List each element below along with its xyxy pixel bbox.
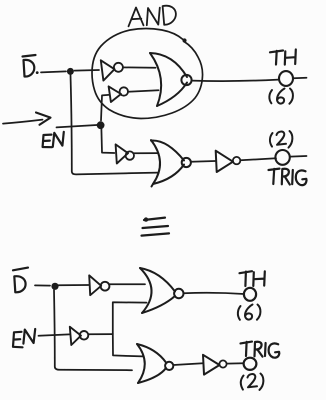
branch wire up to NOR G3 lower input	[113, 302, 147, 334]
label EN (top)	[43, 132, 64, 147]
inverter U6 (bottom, EN path)	[70, 327, 81, 345]
wire U1 to NOR G1	[123, 66, 156, 68]
inverter U2 (top, EN path)	[109, 86, 121, 102]
label TRIG (bottom)	[241, 342, 280, 358]
wire G4 to inverter U7	[174, 363, 204, 365]
wire EN junction down to inverter U3	[101, 129, 114, 153]
NOR gate G1 (inside ellipse)	[150, 53, 187, 106]
pin TH (6) circle	[279, 71, 293, 86]
wire junction to inverter U5	[58, 284, 89, 286]
label TRIG (top)	[269, 169, 307, 186]
label TH (top)	[270, 50, 296, 65]
junction node on D line	[67, 68, 74, 75]
wire G1 output to TH pin	[192, 80, 279, 82]
wire right of TRIG pin	[290, 155, 306, 158]
inverter U3 (TRIG path)	[116, 144, 128, 163]
wire junction to inverter U1	[75, 69, 100, 72]
wire D junction down and along bottom to NOR G4	[54, 290, 132, 370]
dot after D label	[36, 71, 39, 74]
branch wire down to NOR G4 upper input	[113, 334, 143, 357]
wire right of TH pin	[294, 77, 307, 80]
wire D junction down and along bottom to NOR G2	[71, 75, 159, 174]
wire G3 to TH pin (bottom)	[184, 293, 244, 294]
label (2) (top)	[270, 131, 292, 148]
ink blob on ellipse top-right	[182, 38, 186, 42]
inverter U1 (top, D path)	[101, 60, 115, 80]
junction node on EN line	[97, 121, 105, 129]
arrow pointing to EN	[3, 120, 43, 124]
pin TH (6) circle (bottom)	[244, 288, 256, 301]
wire U4 to TRIG pin	[241, 158, 277, 160]
wire EN to inverter U6 (crosses D riser)	[39, 334, 70, 335]
wire U7 to TRIG pin (bottom)	[227, 362, 244, 364]
NOR gate G2 (TRIG path)	[151, 140, 184, 187]
wire U6 to branch point	[88, 333, 112, 335]
pin TRIG (2) circle (bottom)	[244, 358, 257, 370]
wire U3 to NOR G2	[134, 152, 158, 154]
wire EN junction up to inverter U2	[101, 95, 109, 121]
wire D to junction (bottom)	[35, 284, 50, 286]
inverter U4 (before TRIG pin)	[216, 151, 233, 172]
label (2) (bottom)	[241, 374, 264, 390]
wire EN input	[57, 125, 98, 127]
NOR gate G3 (bottom, TH)	[140, 268, 175, 313]
NOR gate G4 (bottom, TRIG)	[137, 344, 166, 383]
inverter U7 (before TRIG pin, bottom)	[203, 355, 220, 375]
label TH (bottom)	[240, 271, 265, 286]
inverter U5 (bottom, D path)	[89, 275, 101, 295]
wire G2 to inverter U4	[191, 160, 216, 163]
label AND	[129, 6, 176, 27]
label (6) (top)	[269, 89, 293, 104]
ellipse grouping bubble around AND-equivalent gates	[92, 29, 203, 119]
wire U5 to NOR G3	[110, 283, 145, 285]
label D-bar (bottom input)	[13, 268, 28, 293]
pin TRIG (2) circle (top)	[275, 150, 289, 165]
label D-bar (top input)	[23, 55, 36, 77]
equivalence sign	[142, 218, 170, 236]
ink blob on equivalence sign	[144, 217, 148, 221]
wire D to junction	[41, 71, 66, 72]
label (6) (bottom)	[238, 305, 261, 320]
junction node on D line (bottom)	[51, 283, 58, 290]
label EN (bottom)	[13, 329, 35, 347]
wire U2 to NOR G1	[128, 90, 158, 92]
